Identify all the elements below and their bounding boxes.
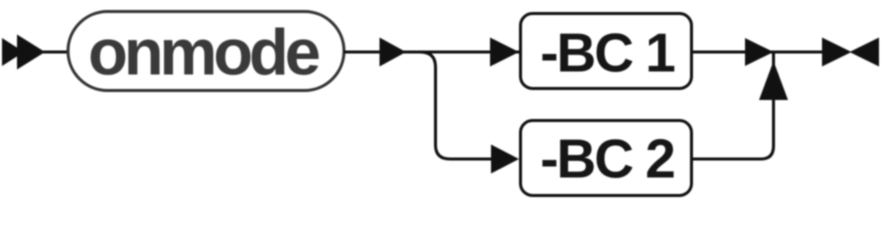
wire branch down <box>420 52 491 159</box>
terminal onmode <box>68 12 344 91</box>
arrow <box>745 38 774 66</box>
wire branch join up <box>693 52 774 159</box>
wire <box>43 51 68 54</box>
start symbol <box>2 35 45 70</box>
keyword -BC 2 <box>521 121 692 196</box>
end symbol <box>822 38 879 67</box>
wire <box>693 51 822 54</box>
keyword -BC 1 <box>521 14 692 89</box>
svg-text:onmode: onmode <box>88 16 319 89</box>
svg-text:-BC 2: -BC 2 <box>540 128 674 190</box>
arrow <box>491 145 519 174</box>
arrow up <box>759 61 788 100</box>
arrow <box>490 38 519 67</box>
arrow <box>380 38 407 67</box>
wire <box>344 51 519 54</box>
svg-text:-BC 1: -BC 1 <box>540 22 675 84</box>
